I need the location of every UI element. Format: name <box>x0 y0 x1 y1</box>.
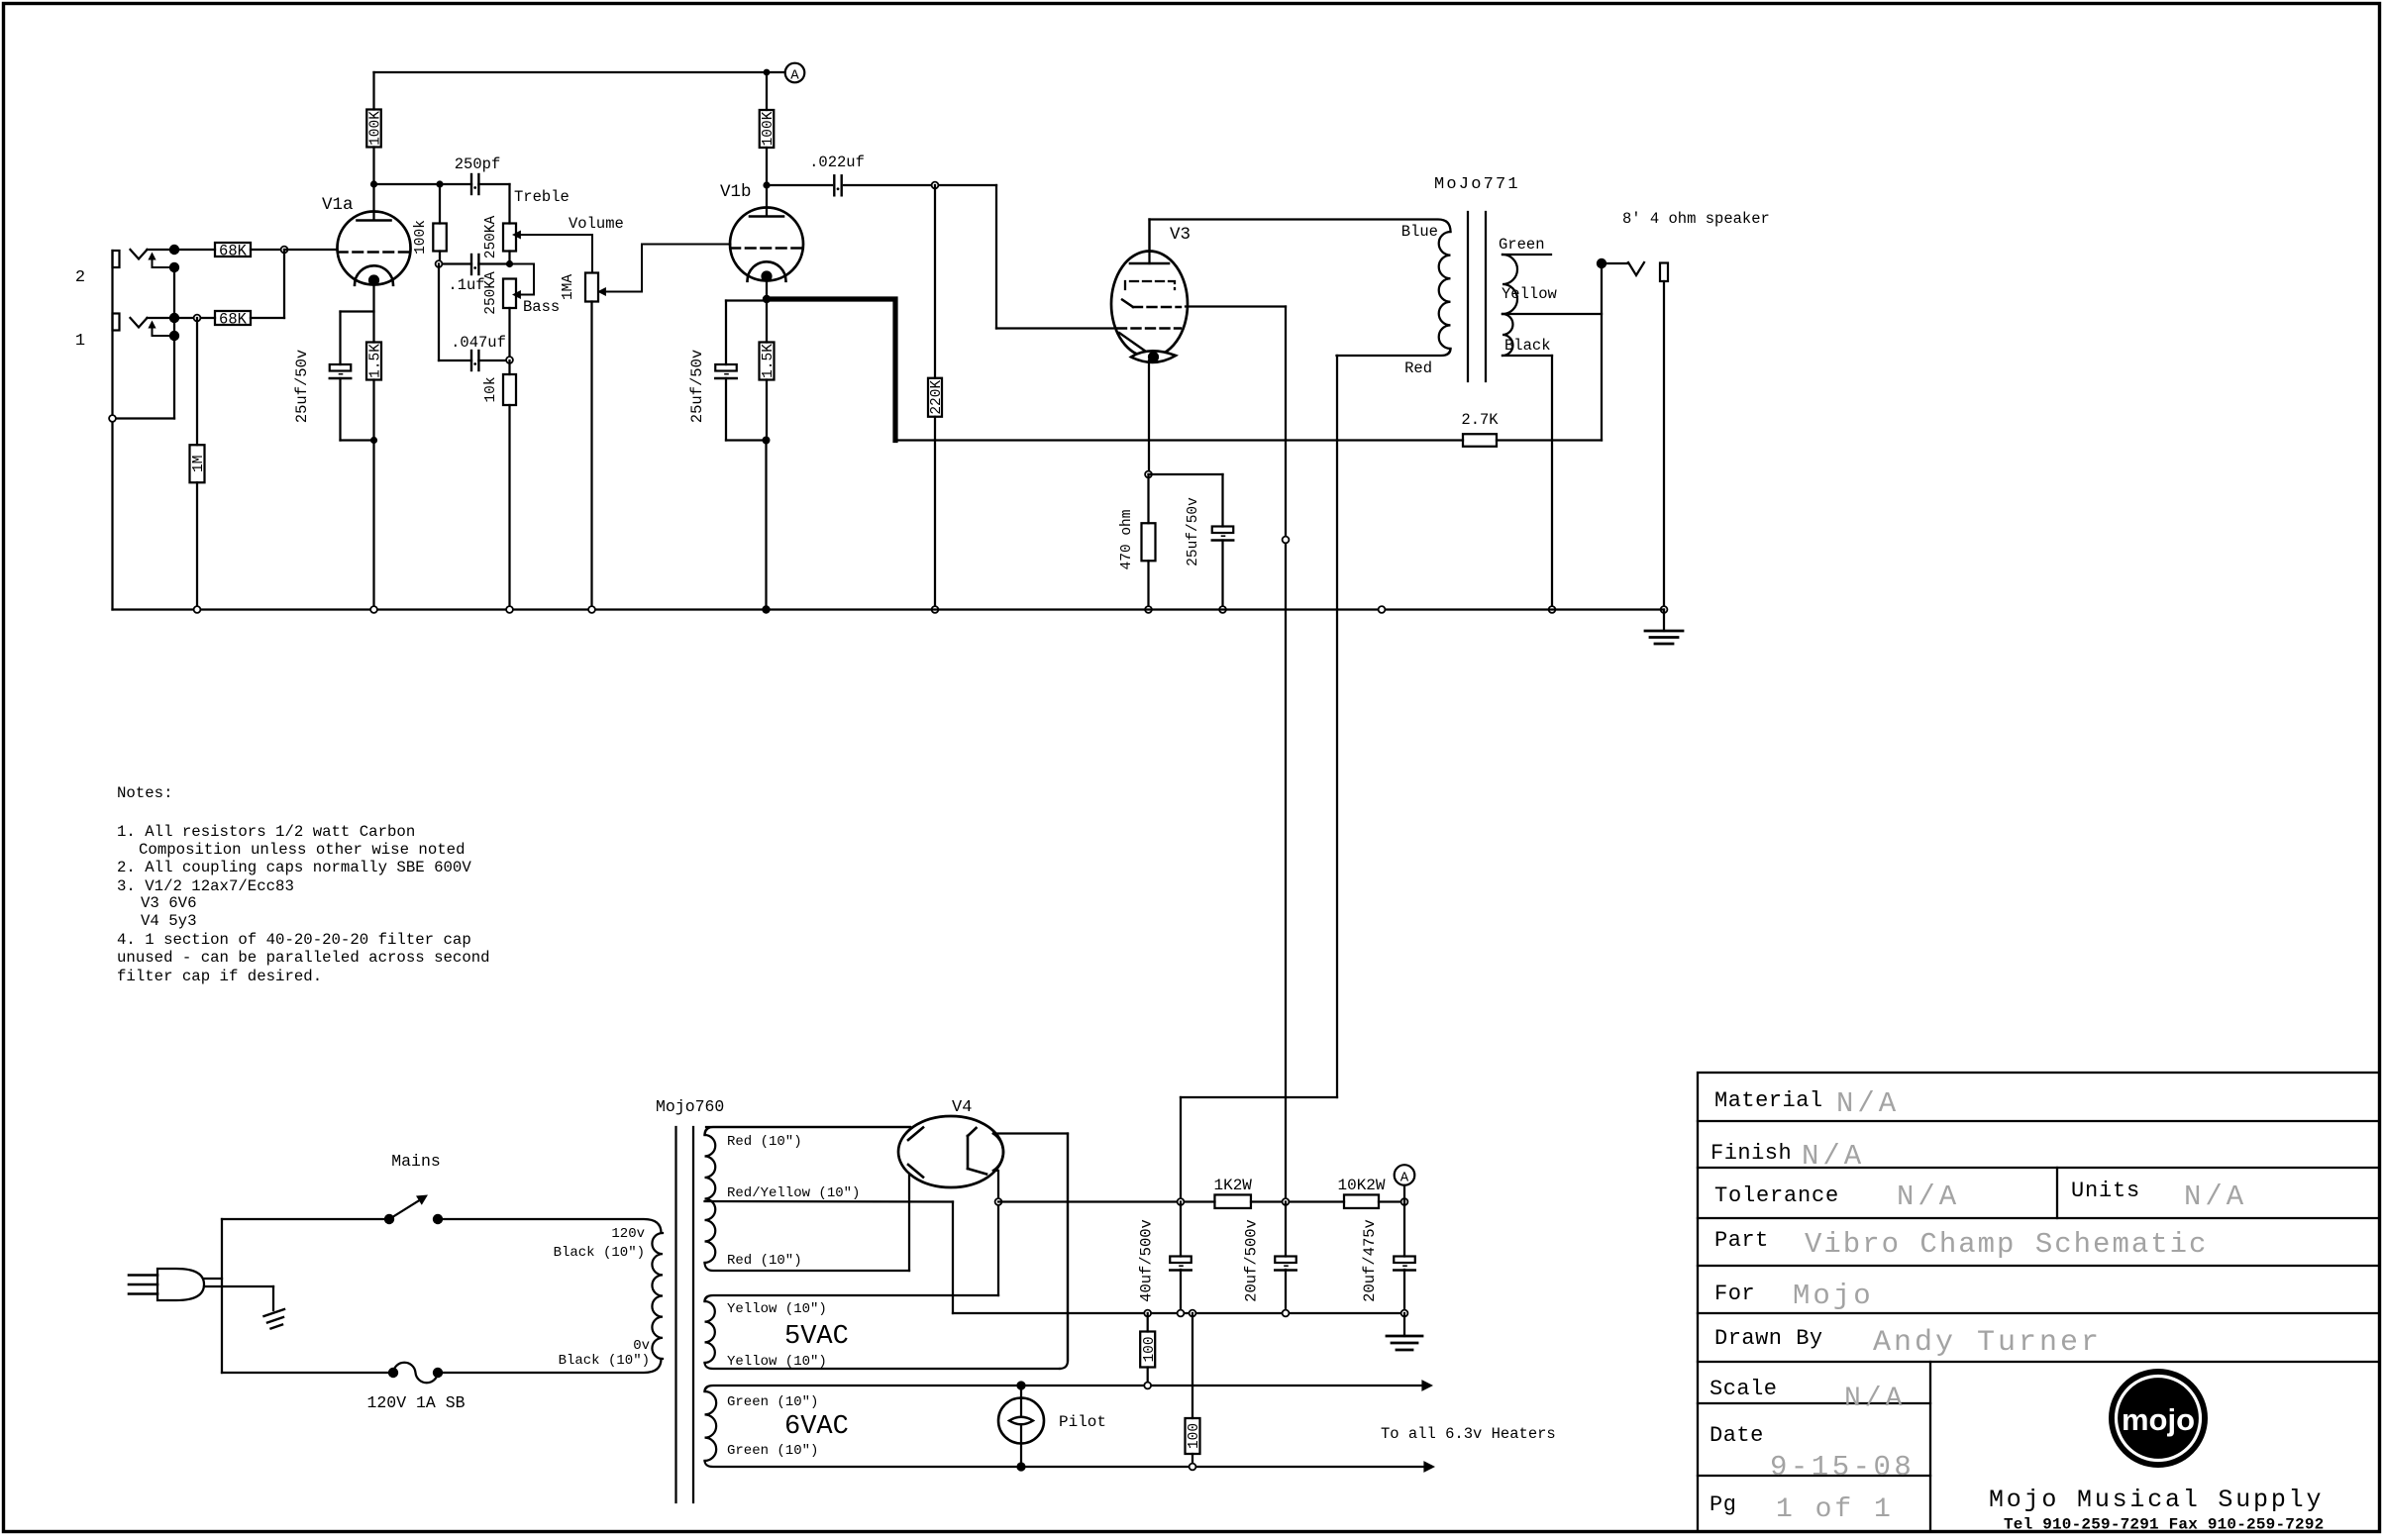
svg-text:MoJo771: MoJo771 <box>1434 175 1520 194</box>
svg-text:1. All resistors 1/2 watt Carb: 1. All resistors 1/2 watt Carbon <box>117 823 415 841</box>
svg-text:Black: Black <box>1504 337 1551 355</box>
svg-text:3. V1/2 12ax7/Ecc83: 3. V1/2 12ax7/Ecc83 <box>117 877 294 895</box>
svg-text:2: 2 <box>75 268 85 287</box>
svg-text:Finish: Finish <box>1710 1141 1792 1166</box>
svg-text:Mojo Musical Supply: Mojo Musical Supply <box>1989 1486 2324 1514</box>
svg-text:Andy Turner: Andy Turner <box>1873 1326 2102 1360</box>
svg-text:470 ohm: 470 ohm <box>1119 510 1135 570</box>
svg-text:.047uf: .047uf <box>451 334 506 352</box>
svg-text:68K: 68K <box>219 311 248 329</box>
svg-text:Green: Green <box>1499 236 1545 254</box>
svg-text:N/A: N/A <box>1836 1087 1900 1120</box>
svg-text:Material: Material <box>1714 1088 1823 1113</box>
svg-text:Red: Red <box>1404 359 1432 377</box>
svg-text:Blue: Blue <box>1401 223 1438 241</box>
svg-text:Red/Yellow (10"): Red/Yellow (10") <box>727 1185 860 1201</box>
svg-text:4. 1 section of 40-20-20-20 fi: 4. 1 section of 40-20-20-20 filter cap <box>117 931 471 949</box>
svg-text:1: 1 <box>75 332 85 351</box>
svg-text:Yellow: Yellow <box>1502 285 1558 303</box>
svg-text:1.5K: 1.5K <box>368 344 384 378</box>
svg-text:V3 6V6: V3 6V6 <box>141 894 196 912</box>
svg-text:Composition unless other wise: Composition unless other wise noted <box>139 841 466 859</box>
svg-text:Notes:: Notes: <box>117 784 172 802</box>
svg-text:Drawn By: Drawn By <box>1714 1326 1823 1351</box>
svg-text:N/A: N/A <box>2184 1181 2247 1213</box>
svg-text:To all 6.3v Heaters: To all 6.3v Heaters <box>1381 1425 1556 1443</box>
svg-text:100: 100 <box>1187 1423 1202 1449</box>
svg-text:6VAC: 6VAC <box>784 1412 849 1442</box>
svg-text:Volume: Volume <box>569 215 624 233</box>
svg-text:.022uf: .022uf <box>809 154 865 171</box>
svg-text:2.7K: 2.7K <box>1461 411 1499 429</box>
svg-text:20uf/475v: 20uf/475v <box>1361 1219 1379 1302</box>
svg-text:Green (10"): Green (10") <box>727 1443 818 1459</box>
svg-text:2. All coupling caps normally: 2. All coupling caps normally SBE 600V <box>117 859 471 876</box>
svg-text:mojo: mojo <box>2122 1402 2195 1437</box>
svg-text:V3: V3 <box>1170 225 1191 245</box>
svg-text:10k: 10k <box>483 376 499 402</box>
svg-text:V4: V4 <box>952 1098 972 1117</box>
svg-text:120v: 120v <box>611 1226 645 1242</box>
svg-text:Green (10"): Green (10") <box>727 1394 818 1410</box>
svg-text:Part: Part <box>1714 1228 1769 1253</box>
svg-text:40uf/500v: 40uf/500v <box>1138 1219 1156 1302</box>
svg-text:220K: 220K <box>929 380 945 415</box>
svg-text:9-15-08: 9-15-08 <box>1770 1451 1915 1484</box>
svg-text:For: For <box>1714 1282 1755 1306</box>
svg-text:Mojo: Mojo <box>1793 1280 1874 1312</box>
svg-text:N/A: N/A <box>1897 1181 1960 1213</box>
svg-text:25uf/50v: 25uf/50v <box>293 350 311 423</box>
svg-text:1 of 1: 1 of 1 <box>1776 1494 1894 1525</box>
svg-text:Yellow (10"): Yellow (10") <box>727 1354 827 1370</box>
svg-text:Pg: Pg <box>1710 1492 1736 1517</box>
svg-text:68K: 68K <box>219 243 248 260</box>
svg-text:250pf: 250pf <box>455 155 501 173</box>
svg-text:Mojo760: Mojo760 <box>656 1097 724 1116</box>
svg-text:unused - can be paralleled acr: unused - can be paralleled across second <box>117 949 490 967</box>
svg-text:A: A <box>1400 1171 1409 1186</box>
svg-text:Treble: Treble <box>514 188 570 206</box>
svg-text:V4 5y3: V4 5y3 <box>141 912 196 930</box>
svg-text:25uf/50v: 25uf/50v <box>1186 497 1201 566</box>
svg-text:filter cap if desired.: filter cap if desired. <box>117 968 322 985</box>
svg-text:8' 4 ohm speaker: 8' 4 ohm speaker <box>1622 210 1770 228</box>
svg-text:Tel 910-259-7291 Fax 910-259-7: Tel 910-259-7291 Fax 910-259-7292 <box>2004 1516 2324 1534</box>
svg-text:N/A: N/A <box>1844 1384 1906 1414</box>
svg-text:120V 1A SB: 120V 1A SB <box>366 1393 465 1412</box>
svg-text:1M: 1M <box>191 456 207 472</box>
svg-text:Scale: Scale <box>1710 1377 1778 1401</box>
svg-text:N/A: N/A <box>1802 1140 1865 1173</box>
svg-text:Yellow (10"): Yellow (10") <box>727 1301 827 1317</box>
svg-text:Bass: Bass <box>523 298 560 316</box>
svg-text:Tolerance: Tolerance <box>1714 1183 1839 1208</box>
svg-text:100: 100 <box>1142 1336 1158 1362</box>
svg-text:V1b: V1b <box>720 182 752 202</box>
svg-text:1.5K: 1.5K <box>761 344 777 378</box>
svg-text:100k: 100k <box>413 220 429 255</box>
svg-text:20uf/500v: 20uf/500v <box>1243 1219 1261 1302</box>
svg-text:250KA: 250KA <box>483 271 499 315</box>
svg-text:.1uf: .1uf <box>448 276 484 294</box>
svg-text:Red (10"): Red (10") <box>727 1253 802 1269</box>
svg-text:0v: 0v <box>633 1338 650 1354</box>
svg-text:Pilot: Pilot <box>1059 1413 1106 1431</box>
svg-text:5VAC: 5VAC <box>784 1322 849 1352</box>
svg-text:A: A <box>790 68 799 84</box>
svg-text:V1a: V1a <box>322 195 354 215</box>
svg-text:Black (10"): Black (10") <box>554 1245 645 1261</box>
svg-text:Vibro Champ Schematic: Vibro Champ Schematic <box>1805 1228 2208 1261</box>
svg-text:Red (10"): Red (10") <box>727 1134 802 1150</box>
svg-text:250KA: 250KA <box>483 215 499 258</box>
svg-text:Black (10"): Black (10") <box>559 1353 650 1369</box>
svg-text:100K: 100K <box>368 111 384 146</box>
svg-text:1MA: 1MA <box>561 274 576 300</box>
svg-text:Date: Date <box>1710 1423 1764 1448</box>
svg-text:10K2W: 10K2W <box>1337 1177 1385 1194</box>
svg-text:1K2W: 1K2W <box>1213 1177 1252 1194</box>
svg-text:25uf/50v: 25uf/50v <box>688 350 706 423</box>
svg-text:Units: Units <box>2071 1179 2140 1203</box>
svg-text:100K: 100K <box>761 111 777 146</box>
svg-text:Mains: Mains <box>391 1152 441 1171</box>
